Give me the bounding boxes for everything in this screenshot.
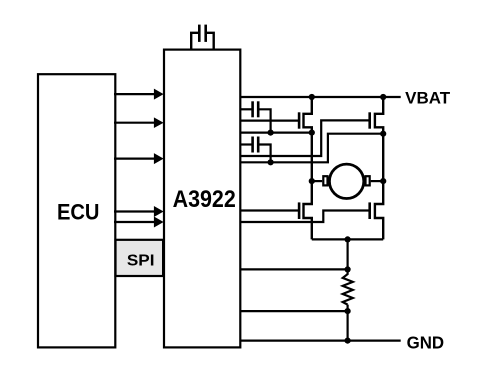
junction bridge bottom center (345, 236, 351, 242)
transistor Q2 (high-side MOSFET B) (370, 97, 384, 181)
transistor Q1 (high-side MOSFET A) (299, 97, 312, 181)
wire control signal 1 (ECU to A3922) (114, 89, 164, 100)
block ECU (38, 74, 115, 347)
capacitor CP (charge pump, top of A3922) (191, 25, 214, 50)
junction VBAT / Q1 drain (309, 94, 315, 100)
svg-text:ECU: ECU (57, 200, 100, 225)
capacitor CB (bootstrap B) (240, 137, 271, 163)
wire control signal 3 (ECU to A3922) (114, 153, 164, 164)
junction SA / Q1 source (309, 130, 315, 136)
wire bridge center to sense node (347, 239, 349, 269)
wire GND rail (240, 340, 401, 342)
junction sense bottom (345, 308, 351, 314)
transistor Q4 (low-side MOSFET B) (370, 181, 384, 239)
junction CA / SA (268, 130, 274, 136)
junction GND rail (345, 338, 351, 344)
svg-text:GND: GND (407, 332, 445, 352)
resistor Rsense (343, 269, 353, 304)
svg-text:A3922: A3922 (173, 187, 236, 213)
wire GHB (gate high-side B) (240, 120, 370, 156)
wire SB (switch node B) (240, 134, 383, 163)
wire SA (switch node A) (240, 132, 312, 134)
wire control signal 2 (ECU to A3922) (114, 117, 164, 128)
wire sense bottom (A3922 to resistor bottom) (240, 310, 348, 312)
wire GLA (gate low-side A) (240, 209, 299, 211)
wire bridge bottom rail (312, 238, 383, 240)
wire GHA (gate high-side A) (240, 119, 299, 121)
capacitor CA (bootstrap A) (240, 101, 271, 132)
wire sense top (A3922 to resistor) (240, 268, 348, 270)
junction sense top (345, 266, 351, 272)
transistor Q3 (low-side MOSFET A) (299, 181, 312, 239)
motor M (323, 164, 369, 198)
SPI interface box (116, 240, 164, 276)
svg-text:SPI: SPI (127, 252, 155, 269)
block A3922 (164, 50, 240, 348)
junction CB / SB (268, 159, 274, 165)
wire motor terminal right (371, 180, 384, 182)
svg-text:VBAT: VBAT (405, 89, 450, 108)
wire GLB (gate low-side B) (240, 211, 370, 223)
wire resistor bottom to GND rail (347, 305, 349, 341)
wire motor terminal left (312, 180, 322, 182)
wire control signal 4 (ECU to A3922) (114, 206, 164, 217)
wire control signal 5 (ECU to A3922) (114, 217, 164, 228)
junction VBAT / Q2 drain (380, 94, 386, 100)
junction motor right node (380, 178, 386, 184)
wire VBAT rail (240, 96, 401, 98)
junction SB / Q2 source (380, 131, 386, 137)
junction motor left node (309, 178, 315, 184)
